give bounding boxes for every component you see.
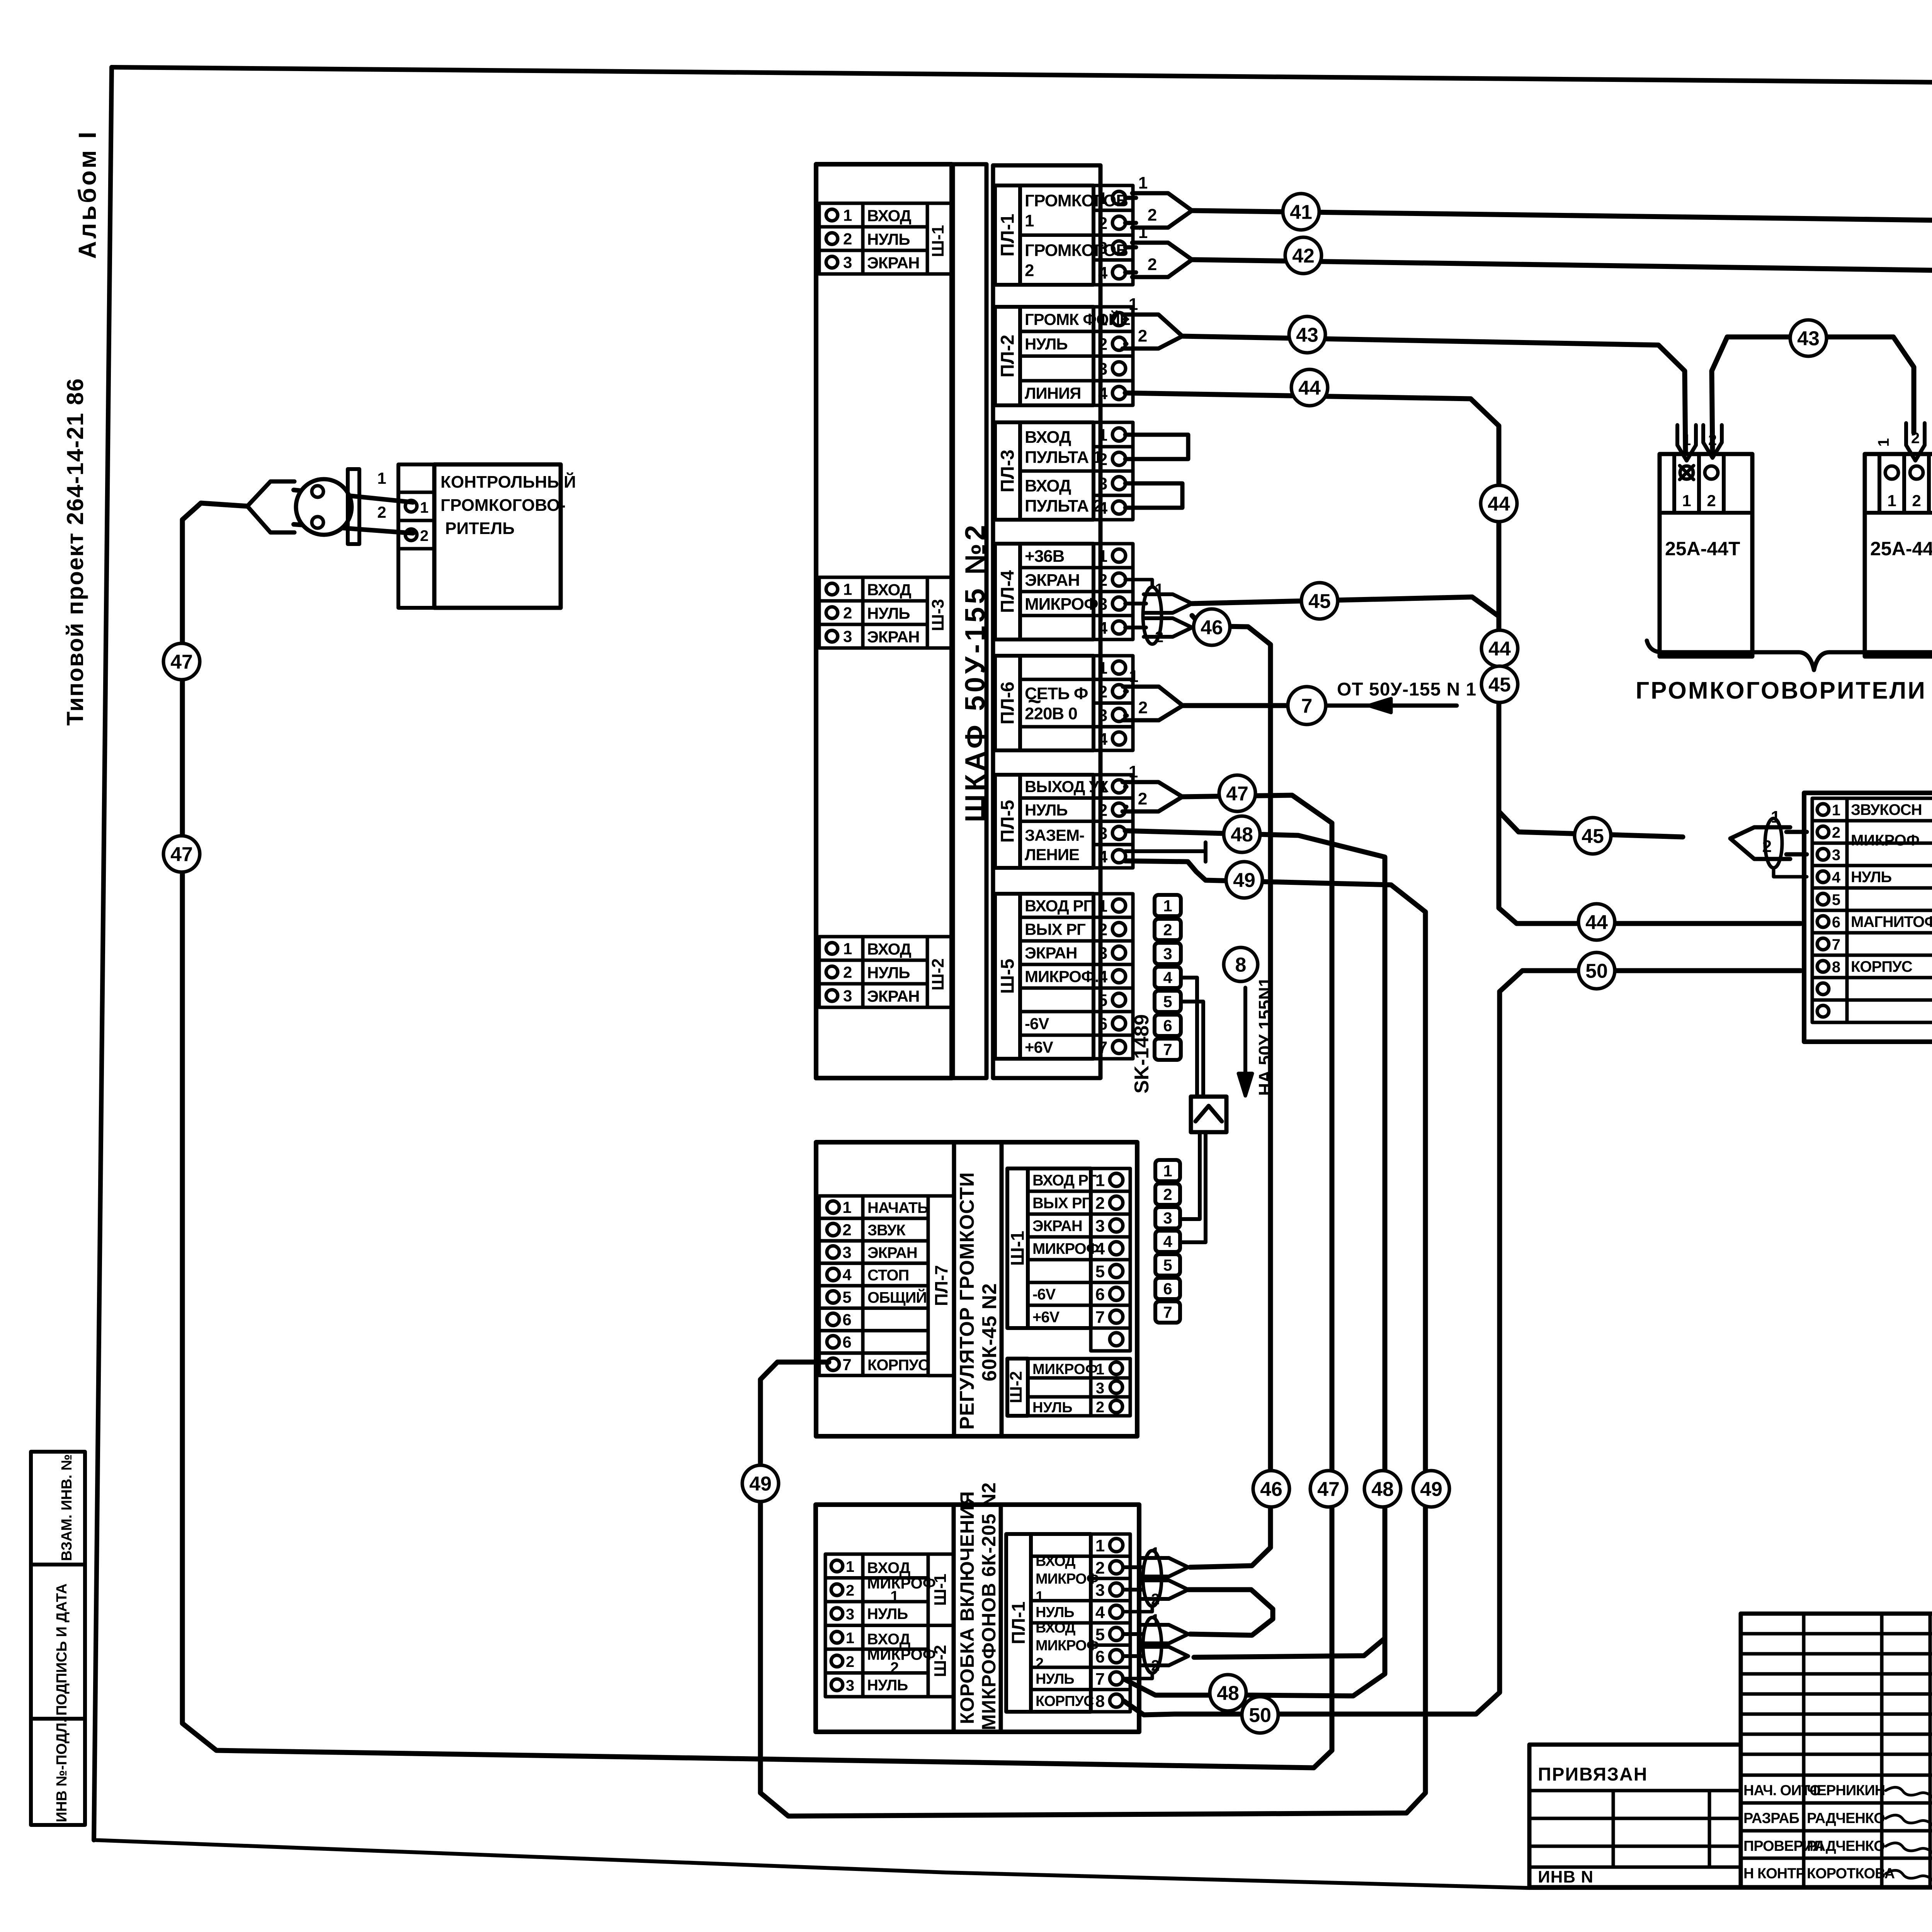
plug pin boxes at regulator bbox=[1155, 1160, 1180, 1181]
svg-text:2: 2 bbox=[420, 527, 429, 544]
svg-text:ПЛ-6: ПЛ-6 bbox=[998, 682, 1018, 724]
svg-text:ЛИНИЯ: ЛИНИЯ bbox=[1025, 384, 1081, 402]
svg-text:46: 46 bbox=[1260, 1478, 1282, 1501]
pennant PL-1 pair 1 bbox=[1125, 196, 1136, 200]
svg-text:5: 5 bbox=[842, 1288, 851, 1306]
svg-text:7: 7 bbox=[1301, 695, 1313, 718]
microphone box block PL-1 bbox=[1006, 1534, 1031, 1712]
signature table bbox=[1741, 1614, 1932, 1887]
margin box podpis i data bbox=[31, 1565, 85, 1719]
svg-text:43: 43 bbox=[1296, 324, 1318, 347]
wire 44 bbox=[1125, 393, 1801, 923]
svg-text:6: 6 bbox=[1095, 1285, 1105, 1304]
svg-text:7: 7 bbox=[1163, 1041, 1172, 1059]
wire 50 bbox=[1124, 971, 1801, 1715]
svg-text:Ш-1: Ш-1 bbox=[929, 225, 947, 257]
svg-text:КОРОБКА ВКЛЮЧЕНИЯ: КОРОБКА ВКЛЮЧЕНИЯ bbox=[956, 1491, 978, 1724]
wire 43 label circle bbox=[1289, 316, 1325, 353]
svg-text:2: 2 bbox=[1911, 430, 1920, 447]
svg-text:1: 1 bbox=[890, 1588, 899, 1605]
svg-text:2: 2 bbox=[1832, 824, 1840, 841]
svg-text:1: 1 bbox=[1887, 492, 1896, 510]
pennant PL-4 mic pair bbox=[1125, 602, 1146, 605]
svg-text:1: 1 bbox=[1875, 438, 1892, 447]
volume regulator box bbox=[816, 1142, 1137, 1436]
svg-text:44: 44 bbox=[1488, 493, 1510, 515]
svg-text:3: 3 bbox=[1098, 474, 1107, 493]
svg-text:ВЫХ РГ: ВЫХ РГ bbox=[1032, 1195, 1090, 1212]
svg-text:7: 7 bbox=[1095, 1670, 1105, 1689]
wire 50 label circle b bbox=[1242, 1697, 1278, 1733]
wire 7 with off-sheet arrow bbox=[1183, 703, 1288, 708]
svg-text:3: 3 bbox=[1098, 239, 1107, 258]
svg-text:ПЛ-1: ПЛ-1 bbox=[998, 214, 1018, 257]
wire 42 label circle bbox=[1285, 237, 1321, 274]
svg-text:-6V: -6V bbox=[1025, 1015, 1049, 1033]
svg-text:3: 3 bbox=[1095, 1581, 1105, 1600]
svg-text:ПЛ-1: ПЛ-1 bbox=[1009, 1602, 1029, 1645]
svg-text:5: 5 bbox=[1163, 993, 1172, 1011]
margin box inv n podl bbox=[31, 1719, 85, 1825]
svg-text:НУЛЬ: НУЛЬ bbox=[1036, 1671, 1074, 1687]
cable from Sh-5 pins to SK-1489 bbox=[1181, 978, 1197, 1097]
svg-text:2: 2 bbox=[843, 230, 852, 248]
terminal block PL-3 bbox=[995, 422, 1020, 520]
loudspeaker 25A-44T no.2 bbox=[1865, 454, 1932, 656]
svg-text:3: 3 bbox=[843, 628, 852, 646]
svg-text:1: 1 bbox=[377, 469, 386, 487]
svg-text:2: 2 bbox=[846, 1582, 854, 1599]
wire 49 bbox=[760, 861, 1425, 1816]
svg-text:1: 1 bbox=[1098, 310, 1107, 329]
svg-text:Альбом I: Альбом I bbox=[73, 129, 101, 259]
svg-text:ГРОМКОГОВОРИТЕЛИ ФОЙЕ: ГРОМКОГОВОРИТЕЛИ ФОЙЕ bbox=[1636, 677, 1932, 704]
svg-text:6: 6 bbox=[1163, 1017, 1172, 1035]
svg-text:47: 47 bbox=[170, 651, 193, 673]
svg-text:2: 2 bbox=[1098, 920, 1107, 939]
wire label circle 8 bbox=[1224, 947, 1258, 981]
cabinet label strip bbox=[953, 164, 986, 1078]
svg-text:3: 3 bbox=[846, 1677, 854, 1694]
svg-text:РАЗРАБ: РАЗРАБ bbox=[1743, 1810, 1799, 1827]
svg-text:2: 2 bbox=[1098, 335, 1107, 354]
svg-text:+6V: +6V bbox=[1032, 1309, 1060, 1326]
svg-text:1: 1 bbox=[1138, 173, 1148, 192]
junction box outer bbox=[1804, 793, 1932, 1042]
regulator block Sh-1 bbox=[1007, 1168, 1028, 1328]
wire 7 label circle bbox=[1288, 687, 1326, 724]
svg-text:ЗВУК: ЗВУК bbox=[867, 1222, 906, 1239]
loudspeaker 25A-44T no.1 bbox=[1660, 454, 1752, 656]
wire 50 label circle a bbox=[1578, 952, 1615, 989]
svg-text:РИТЕЛЬ: РИТЕЛЬ bbox=[445, 519, 515, 538]
wire 49 label circle b bbox=[1413, 1471, 1449, 1507]
svg-text:4: 4 bbox=[1163, 969, 1172, 987]
svg-text:2: 2 bbox=[843, 963, 852, 981]
svg-text:ВЗАМ. ИНВ. №: ВЗАМ. ИНВ. № bbox=[59, 1454, 75, 1561]
svg-text:ЭКРАН: ЭКРАН bbox=[867, 1244, 917, 1261]
svg-text:+36В: +36В bbox=[1025, 547, 1064, 566]
svg-text:45: 45 bbox=[1582, 825, 1604, 848]
wire 43 jumper to speaker 2 bbox=[1712, 337, 1914, 452]
svg-text:5: 5 bbox=[1095, 1262, 1105, 1281]
svg-text:1: 1 bbox=[1096, 1361, 1104, 1378]
svg-text:2: 2 bbox=[1148, 255, 1157, 274]
svg-text:3: 3 bbox=[1095, 1217, 1105, 1236]
wire 43 jumper label circle bbox=[1790, 320, 1827, 356]
svg-text:ЭКРАН: ЭКРАН bbox=[1025, 571, 1080, 590]
svg-text:1: 1 bbox=[1095, 1536, 1105, 1555]
svg-text:2: 2 bbox=[1025, 261, 1034, 280]
svg-text:1: 1 bbox=[1129, 667, 1138, 686]
svg-text:1: 1 bbox=[1682, 432, 1691, 449]
svg-text:1: 1 bbox=[1129, 295, 1138, 314]
svg-text:7: 7 bbox=[842, 1355, 851, 1374]
connector Sh-3 on cabinet bbox=[819, 577, 863, 601]
svg-text:НАЧАТЬ: НАЧАТЬ bbox=[867, 1199, 928, 1216]
svg-text:2: 2 bbox=[1708, 432, 1717, 449]
svg-text:НУЛЬ: НУЛЬ bbox=[867, 230, 910, 248]
svg-text:2: 2 bbox=[846, 1653, 854, 1670]
svg-text:ВХОД: ВХОД bbox=[867, 940, 912, 958]
svg-text:НУЛЬ: НУЛЬ bbox=[867, 1677, 908, 1694]
svg-text:ПРИВЯЗАН: ПРИВЯЗАН bbox=[1538, 1764, 1648, 1785]
svg-text:1: 1 bbox=[1129, 762, 1138, 781]
connector Sh-1 on cabinet bbox=[819, 203, 863, 227]
svg-text:49: 49 bbox=[1420, 1478, 1442, 1501]
svg-text:Ш-3: Ш-3 bbox=[929, 599, 947, 631]
svg-text:2: 2 bbox=[1098, 450, 1107, 469]
svg-text:3: 3 bbox=[1098, 595, 1107, 614]
pennant PL-2 pair bbox=[1125, 317, 1126, 321]
svg-text:ВХОД: ВХОД bbox=[1025, 428, 1071, 447]
svg-text:5: 5 bbox=[1095, 1625, 1105, 1644]
svg-text:Ш-5: Ш-5 bbox=[998, 959, 1018, 994]
svg-text:+6V: +6V bbox=[1025, 1038, 1053, 1056]
svg-text:ПЛ-7: ПЛ-7 bbox=[931, 1265, 951, 1306]
svg-text:ЛЕНИЕ: ЛЕНИЕ bbox=[1025, 845, 1079, 864]
svg-text:4: 4 bbox=[1832, 869, 1841, 886]
svg-text:1: 1 bbox=[1098, 777, 1107, 796]
svg-text:ПЛ-2: ПЛ-2 bbox=[998, 335, 1018, 378]
svg-text:ЭКРАН: ЭКРАН bbox=[867, 987, 920, 1005]
svg-text:3: 3 bbox=[1098, 706, 1107, 725]
svg-text:~: ~ bbox=[1028, 688, 1041, 714]
svg-text:КОРПУС: КОРПУС bbox=[867, 1357, 929, 1374]
svg-text:Ш-2: Ш-2 bbox=[929, 958, 947, 990]
svg-text:1: 1 bbox=[1098, 426, 1107, 445]
connector SK-1489 bbox=[1191, 1097, 1226, 1132]
svg-text:2: 2 bbox=[890, 1660, 899, 1677]
svg-text:4: 4 bbox=[1098, 264, 1108, 282]
wire 47 label circle d bbox=[1310, 1471, 1347, 1507]
terminal block PL-1 bbox=[995, 185, 1020, 285]
svg-text:1: 1 bbox=[842, 1198, 851, 1216]
wire 47 label circle c bbox=[163, 836, 200, 872]
svg-text:47: 47 bbox=[1226, 783, 1248, 805]
svg-text:ЗАЗЕМ-: ЗАЗЕМ- bbox=[1025, 826, 1084, 844]
svg-text:4: 4 bbox=[1095, 1240, 1105, 1259]
regulator block Sh-2 bbox=[1007, 1359, 1028, 1416]
svg-text:ШКАФ 50У-155 №2: ШКАФ 50У-155 №2 bbox=[960, 522, 991, 822]
mic box jumper pennant2 to pennant1 bbox=[1188, 1590, 1273, 1635]
junction box input pennant bbox=[1786, 830, 1807, 834]
wire 45 bbox=[1192, 597, 1499, 616]
wire 48 label circle c bbox=[1210, 1675, 1246, 1711]
cabinet 50U-155 left box bbox=[816, 164, 952, 1078]
pennant PL-5 pair bbox=[1125, 785, 1126, 789]
svg-text:6: 6 bbox=[842, 1311, 851, 1329]
svg-text:2: 2 bbox=[1163, 1185, 1172, 1204]
svg-text:4: 4 bbox=[1095, 1603, 1105, 1622]
svg-text:43: 43 bbox=[1797, 328, 1820, 350]
svg-text:48: 48 bbox=[1231, 824, 1253, 846]
svg-text:3: 3 bbox=[1098, 824, 1107, 843]
svg-text:48: 48 bbox=[1217, 1682, 1239, 1705]
svg-text:НУЛЬ: НУЛЬ bbox=[1032, 1400, 1073, 1416]
svg-text:НУЛЬ: НУЛЬ bbox=[1025, 801, 1068, 819]
svg-text:МИКРОФ: МИКРОФ bbox=[1032, 1240, 1099, 1257]
svg-text:6: 6 bbox=[1095, 1647, 1105, 1666]
svg-text:5: 5 bbox=[1098, 991, 1107, 1010]
svg-text:6: 6 bbox=[1163, 1280, 1172, 1298]
PL-3 console jumpers bbox=[1125, 435, 1188, 459]
svg-text:49: 49 bbox=[749, 1473, 772, 1495]
regulator label strip bbox=[954, 1142, 1002, 1436]
brace foyer speakers bbox=[1647, 641, 1932, 670]
svg-text:ПЛ-5: ПЛ-5 bbox=[998, 800, 1018, 843]
svg-text:ПУЛЬТА 1: ПУЛЬТА 1 bbox=[1025, 448, 1102, 467]
margin box vzam inv bbox=[31, 1452, 85, 1565]
wire 41 label circle bbox=[1283, 194, 1319, 230]
control loudspeaker symbol bbox=[294, 490, 413, 502]
svg-text:3: 3 bbox=[842, 1243, 851, 1261]
svg-text:6: 6 bbox=[842, 1333, 851, 1351]
svg-text:ВХОД: ВХОД bbox=[867, 207, 912, 225]
svg-text:44: 44 bbox=[1585, 912, 1608, 934]
svg-text:1: 1 bbox=[1138, 223, 1148, 242]
svg-text:СТОП: СТОП bbox=[867, 1267, 909, 1284]
regulator blank tooth bbox=[1091, 1328, 1130, 1351]
svg-text:45: 45 bbox=[1308, 590, 1331, 613]
svg-text:НУЛЬ: НУЛЬ bbox=[867, 964, 910, 982]
svg-text:НУЛЬ: НУЛЬ bbox=[867, 1605, 908, 1622]
svg-text:1: 1 bbox=[1095, 1171, 1105, 1190]
terminal block PL-5 bbox=[995, 775, 1020, 868]
svg-text:1: 1 bbox=[1682, 492, 1691, 510]
svg-text:ВХОД: ВХОД bbox=[867, 1631, 910, 1648]
wire 45 label circle c bbox=[1575, 818, 1611, 854]
svg-text:4: 4 bbox=[1098, 619, 1108, 638]
terminal rows PL-7 bbox=[819, 1196, 863, 1218]
svg-text:4: 4 bbox=[1098, 384, 1108, 403]
svg-text:4: 4 bbox=[842, 1265, 852, 1284]
connector Sh-2 on cabinet bbox=[819, 937, 863, 960]
svg-text:50: 50 bbox=[1249, 1704, 1271, 1727]
svg-text:2: 2 bbox=[1098, 682, 1107, 701]
svg-text:МИКРОФ.: МИКРОФ. bbox=[1025, 968, 1099, 986]
svg-text:7: 7 bbox=[1163, 1303, 1172, 1321]
svg-text:5: 5 bbox=[1832, 891, 1840, 908]
wire 48 label circle a bbox=[1224, 816, 1260, 852]
svg-text:2: 2 bbox=[377, 503, 386, 521]
svg-text:ВЫХ РГ: ВЫХ РГ bbox=[1025, 920, 1085, 939]
svg-text:2: 2 bbox=[1138, 789, 1147, 808]
drawing frame border bbox=[112, 67, 1932, 88]
wire 43 bbox=[1182, 336, 1685, 452]
svg-text:ВХОД: ВХОД bbox=[867, 581, 912, 599]
svg-text:8: 8 bbox=[1235, 954, 1247, 976]
svg-text:РЕГУЛЯТОР ГРОМКОСТИ: РЕГУЛЯТОР ГРОМКОСТИ bbox=[956, 1172, 978, 1430]
wire 44 label circle a bbox=[1291, 369, 1328, 406]
terminal block PL-4 bbox=[995, 544, 1020, 639]
svg-text:44: 44 bbox=[1488, 638, 1511, 660]
svg-text:-6V: -6V bbox=[1032, 1286, 1056, 1303]
svg-text:6: 6 bbox=[1832, 914, 1840, 931]
svg-text:6: 6 bbox=[1098, 1015, 1107, 1034]
wire 45 label circle a bbox=[1301, 583, 1338, 619]
label to 50U-155 N1 with arrow bbox=[1243, 988, 1247, 1090]
svg-text:1: 1 bbox=[1025, 211, 1034, 230]
svg-text:2: 2 bbox=[1098, 801, 1107, 820]
svg-text:ЭКРАН: ЭКРАН bbox=[1032, 1218, 1082, 1235]
svg-text:3: 3 bbox=[1098, 359, 1107, 378]
wire 47 label circle b bbox=[163, 643, 200, 680]
wire 49 label circle a bbox=[1226, 862, 1262, 898]
pennant PL-6 pair bbox=[1125, 689, 1127, 694]
svg-text:ВХОД РГ: ВХОД РГ bbox=[1032, 1172, 1097, 1189]
svg-text:3: 3 bbox=[1096, 1380, 1104, 1397]
svg-text:3: 3 bbox=[843, 253, 852, 272]
wire 47 bbox=[182, 503, 1332, 1768]
svg-text:ОТ 50У-155 N 1: ОТ 50У-155 N 1 bbox=[1337, 679, 1476, 700]
microphone box label strip bbox=[954, 1505, 1001, 1732]
svg-text:Ш-2: Ш-2 bbox=[1007, 1371, 1026, 1403]
svg-text:ЭКРАН: ЭКРАН bbox=[867, 254, 920, 272]
svg-text:46: 46 bbox=[1201, 617, 1223, 639]
microphone box outer bbox=[816, 1505, 1139, 1732]
svg-text:КОНТРОЛЬНЫЙ: КОНТРОЛЬНЫЙ bbox=[440, 472, 576, 492]
svg-text:МИКРОФ: МИКРОФ bbox=[1851, 832, 1920, 849]
wire 41 bbox=[1192, 211, 1932, 433]
svg-text:ВХОД: ВХОД bbox=[1036, 1620, 1075, 1636]
svg-text:2: 2 bbox=[1163, 921, 1172, 939]
svg-text:2: 2 bbox=[843, 604, 852, 622]
terminal block Sh-5 bbox=[995, 894, 1020, 1059]
svg-text:1: 1 bbox=[843, 206, 852, 224]
svg-text:2: 2 bbox=[1707, 492, 1716, 510]
privyazan table bbox=[1529, 1745, 1741, 1887]
svg-text:2: 2 bbox=[842, 1221, 851, 1239]
svg-text:7: 7 bbox=[1098, 1038, 1107, 1057]
svg-text:4: 4 bbox=[1098, 847, 1108, 866]
svg-text:ОБЩИЙ: ОБЩИЙ bbox=[867, 1288, 927, 1306]
svg-text:1: 1 bbox=[1098, 547, 1107, 566]
svg-text:2: 2 bbox=[1036, 1655, 1043, 1672]
svg-text:3: 3 bbox=[843, 987, 852, 1005]
svg-text:1: 1 bbox=[843, 940, 852, 958]
svg-text:5: 5 bbox=[1163, 1256, 1172, 1274]
svg-text:47: 47 bbox=[170, 844, 193, 866]
svg-text:МИКРОФОНОВ 6К-205 N2: МИКРОФОНОВ 6К-205 N2 bbox=[978, 1482, 1000, 1730]
svg-text:ВХОД: ВХОД bbox=[867, 1560, 910, 1577]
svg-text:ЭКРАН: ЭКРАН bbox=[867, 628, 920, 646]
svg-text:1: 1 bbox=[846, 1629, 854, 1646]
plug pin boxes at Sh-5 bbox=[1155, 895, 1181, 916]
wire 44 label circle b bbox=[1481, 485, 1517, 522]
svg-text:50: 50 bbox=[1585, 960, 1608, 983]
svg-text:МИКРОФ: МИКРОФ bbox=[1032, 1361, 1098, 1378]
svg-text:1: 1 bbox=[1036, 1589, 1044, 1605]
svg-text:48: 48 bbox=[1371, 1478, 1394, 1501]
svg-text:МАГНИТОФ: МАГНИТОФ bbox=[1851, 913, 1932, 930]
wire 45 label circle b bbox=[1481, 666, 1518, 702]
wire 47 label circle a bbox=[1219, 775, 1255, 811]
svg-text:КОРОТКОВА: КОРОТКОВА bbox=[1807, 1866, 1895, 1882]
svg-text:1: 1 bbox=[1163, 1162, 1172, 1180]
svg-text:2: 2 bbox=[1138, 698, 1148, 717]
svg-text:КОРПУС: КОРПУС bbox=[1036, 1693, 1094, 1709]
svg-text:45: 45 bbox=[1488, 674, 1511, 696]
svg-text:ЭКРАН: ЭКРАН bbox=[1025, 944, 1077, 962]
cabinet terminal column box bbox=[993, 165, 1100, 1078]
svg-text:7: 7 bbox=[1832, 936, 1840, 953]
svg-text:ВЫХОД УК: ВЫХОД УК bbox=[1025, 777, 1109, 796]
svg-text:Типовой проект 264-14-21 86: Типовой проект 264-14-21 86 bbox=[62, 378, 88, 726]
microphone box connectors Sh-1 Sh-2 bbox=[825, 1554, 863, 1578]
control loudspeaker terminal box bbox=[398, 464, 434, 608]
svg-text:2: 2 bbox=[1148, 206, 1157, 224]
pennant PL-1 pair 2 bbox=[1125, 245, 1136, 250]
svg-text:ВХОД: ВХОД bbox=[1036, 1553, 1075, 1570]
svg-text:4: 4 bbox=[1163, 1233, 1172, 1251]
svg-text:ПОДПИСЬ И ДАТА: ПОДПИСЬ И ДАТА bbox=[54, 1583, 70, 1716]
svg-text:SK-1489: SK-1489 bbox=[1131, 1014, 1153, 1094]
svg-text:3: 3 bbox=[1163, 1209, 1172, 1227]
svg-text:НУЛЬ: НУЛЬ bbox=[1851, 869, 1891, 886]
svg-text:41: 41 bbox=[1290, 201, 1312, 224]
svg-text:8: 8 bbox=[1095, 1692, 1105, 1711]
svg-text:1: 1 bbox=[846, 1558, 854, 1575]
wire 46 bbox=[1190, 616, 1270, 1567]
wire 49 label circle c bbox=[742, 1465, 779, 1502]
svg-text:Ш-2: Ш-2 bbox=[931, 1645, 950, 1677]
svg-text:Ш-1: Ш-1 bbox=[931, 1574, 950, 1606]
svg-text:4: 4 bbox=[1098, 499, 1108, 518]
svg-text:ГРОМКОГОВО-: ГРОМКОГОВО- bbox=[440, 496, 566, 515]
svg-text:3: 3 bbox=[1832, 847, 1840, 864]
svg-text:РАДЧЕНКО: РАДЧЕНКО bbox=[1807, 1810, 1885, 1827]
terminal block PL-6 bbox=[995, 656, 1020, 750]
svg-text:3: 3 bbox=[1098, 944, 1107, 963]
svg-text:НУЛЬ: НУЛЬ bbox=[867, 604, 910, 622]
svg-text:4: 4 bbox=[1098, 730, 1108, 748]
svg-text:2: 2 bbox=[1912, 492, 1921, 510]
svg-text:ПУЛЬТА 2: ПУЛЬТА 2 bbox=[1025, 497, 1102, 515]
svg-text:4: 4 bbox=[1098, 968, 1108, 986]
svg-text:2: 2 bbox=[1098, 571, 1107, 590]
svg-text:ЧЕРНИКИН: ЧЕРНИКИН bbox=[1807, 1782, 1885, 1799]
svg-text:ЗВУКОСН: ЗВУКОСН bbox=[1851, 801, 1922, 818]
svg-text:2: 2 bbox=[1095, 1194, 1105, 1213]
terminal block PL-2 bbox=[995, 307, 1020, 405]
svg-text:МИКРОФ: МИКРОФ bbox=[867, 1575, 936, 1592]
svg-text:2: 2 bbox=[1096, 1399, 1104, 1416]
wire 48 bbox=[1124, 831, 1385, 1696]
svg-text:РАДЧЕНКО: РАДЧЕНКО bbox=[1807, 1838, 1885, 1854]
svg-text:25А-44Т: 25А-44Т bbox=[1870, 538, 1932, 560]
svg-text:49: 49 bbox=[1233, 869, 1255, 892]
